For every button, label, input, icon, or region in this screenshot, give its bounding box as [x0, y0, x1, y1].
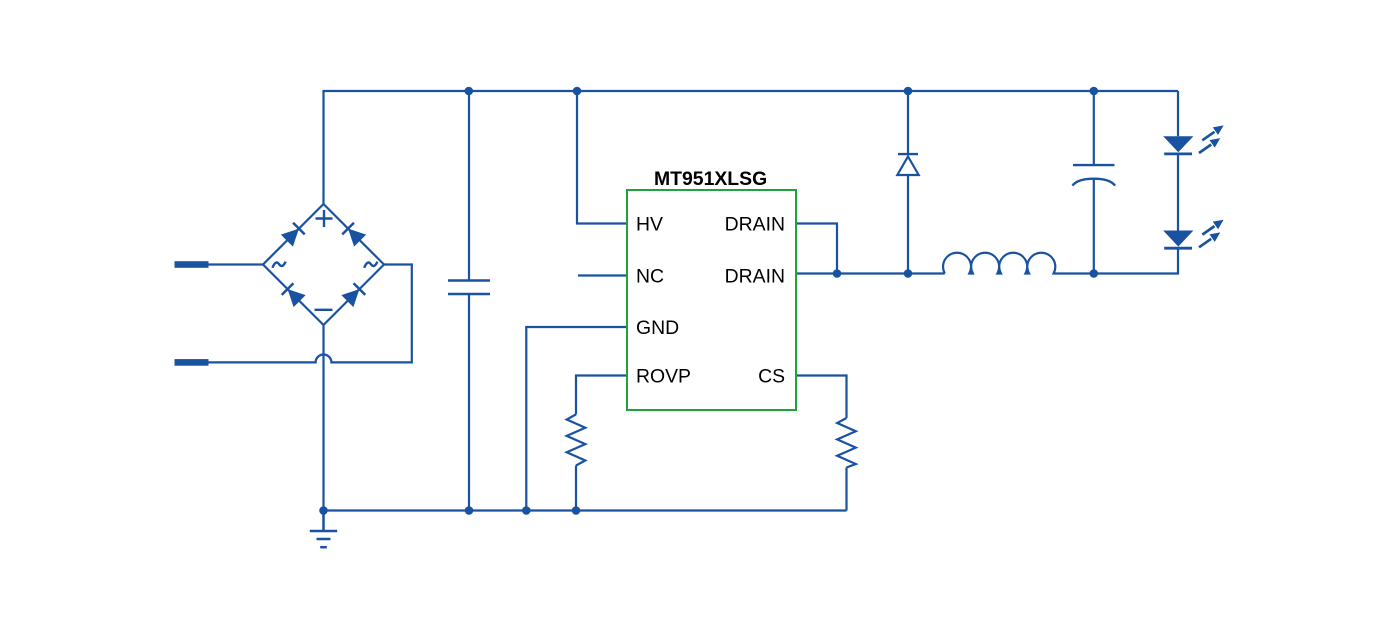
LED D2 upper [1163, 91, 1223, 154]
wire CS pin to resistor R2 [796, 376, 847, 419]
bridge plus label [316, 210, 333, 227]
wire resistor R1 to ground rail [575, 466, 577, 511]
diode D1 freewheeling [897, 91, 918, 274]
wire inductor to LED string bottom [1054, 248, 1178, 273]
svg-text:GND: GND [636, 317, 679, 339]
junction ground rail at C1 [465, 506, 474, 515]
junction ground rail at R1 [572, 506, 581, 515]
wire top rail from bridge + output to LED string [324, 91, 1179, 204]
wire upper terminal to bridge left vertex [209, 263, 264, 265]
bridge diode lower-left (arrow toward AC) [282, 283, 306, 307]
junction top rail at D1 [904, 87, 913, 96]
svg-text:DRAIN: DRAIN [725, 214, 785, 236]
resistor R2 [837, 418, 856, 468]
wire resistor R2 to ground rail [845, 468, 847, 511]
junction drain net at DRAIN1 [833, 269, 842, 278]
wire bottom ground rail [324, 509, 847, 511]
bridge AC tilde right [364, 262, 377, 268]
op-amp U1 MT951XLSG box [627, 190, 796, 410]
svg-text:DRAIN: DRAIN [725, 266, 785, 288]
svg-text:HV: HV [636, 214, 663, 236]
bridge diode lower-right (arrow toward AC) [341, 283, 365, 307]
inductor L1 [943, 253, 1055, 274]
junction drain net at D1 [904, 269, 913, 278]
wire HV pin to top rail [577, 91, 627, 224]
wire GND pin to ground rail [526, 327, 627, 511]
LED D3 lower [1163, 154, 1223, 248]
capacitor C2 output [1073, 91, 1116, 274]
bridge rectifier BR1 diamond outline [263, 204, 384, 325]
bridge diode upper-left (arrow toward +) [281, 223, 305, 247]
junction ground rail at bridge [319, 506, 328, 515]
bridge minus label [315, 309, 333, 311]
junction ground rail at GND pin [522, 506, 531, 515]
wire ROVP pin to resistor R1 [576, 376, 627, 415]
svg-text:MT951XLSG: MT951XLSG [654, 168, 767, 190]
junction top rail at C2 [1090, 87, 1099, 96]
ground symbol [310, 511, 337, 548]
junction drain net at C2 [1090, 269, 1099, 278]
terminal AC input upper [175, 261, 209, 268]
resistor R1 [567, 414, 586, 465]
svg-text:CS: CS [758, 366, 785, 388]
bridge diode upper-right (arrow toward +) [342, 223, 366, 247]
junction top rail at C1 [465, 87, 474, 96]
wire DRAIN pin2 net to inductor [796, 272, 945, 274]
junction top rail at HV [573, 87, 582, 96]
capacitor C1 input [448, 91, 490, 511]
bridge AC tilde left [272, 262, 285, 268]
wire lower terminal to bridge right vertex with hop over vertical [209, 265, 412, 363]
wire NC stub [578, 274, 627, 276]
terminal AC input lower [175, 359, 209, 366]
svg-text:NC: NC [636, 266, 664, 288]
wire DRAIN pin1 down to drain net [796, 224, 837, 274]
wire bridge bottom to ground rail [322, 325, 324, 511]
svg-text:ROVP: ROVP [636, 366, 691, 388]
